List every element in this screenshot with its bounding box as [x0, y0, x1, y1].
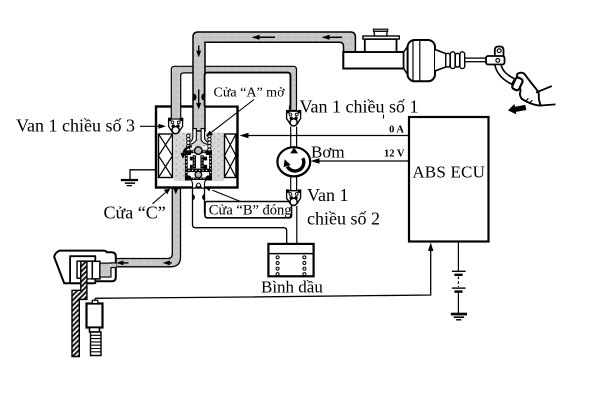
svg-text:chiều số 2: chiều số 2 [307, 209, 380, 229]
pipe below valve to check valve 2 and reservoir [193, 189, 292, 245]
ABS ECU box [409, 117, 489, 242]
svg-text:Cửa “A” mở: Cửa “A” mở [214, 86, 286, 101]
check valve 1 [286, 110, 301, 126]
pedal arm [495, 65, 515, 85]
master cylinder body [343, 49, 403, 68]
label box Cua B dong [205, 202, 292, 219]
wire ground lead from valve body [130, 170, 157, 180]
svg-text:Van 1: Van 1 [307, 185, 349, 205]
svg-text:Bình dầu: Bình dầu [261, 278, 323, 297]
arrow down in vertical pipe upper [196, 46, 201, 58]
arrow left in caliper pipe 2 [163, 261, 173, 266]
check valve 2 [286, 189, 301, 205]
svg-text:ABS ECU: ABS ECU [412, 162, 485, 181]
wire sensor line to ECU with up arrow [95, 243, 433, 299]
clevis [486, 47, 505, 65]
pipe check valve 1 to pump [291, 127, 297, 148]
arrow pedal direction [507, 102, 527, 116]
pipe C from valve to caliper [110, 189, 181, 267]
valve interior stippled chamber [174, 133, 224, 182]
ball valve bottom [195, 171, 202, 178]
ball valve top [195, 147, 203, 155]
flow curved arrow in chamber [181, 146, 193, 159]
svg-text:Bơm: Bơm [311, 143, 345, 162]
wire 12V line from ECU to pump [311, 158, 410, 163]
arrow left in top pipe 2 [322, 35, 343, 40]
pipe thin upper run valve to check valve 1 [171, 66, 296, 121]
svg-text:Cửa “C”: Cửa “C” [104, 203, 166, 223]
spring bead columns [187, 134, 211, 151]
callout arrow to port C [153, 189, 171, 204]
arrow left in top pipe 1 [252, 35, 276, 40]
battery [452, 242, 466, 314]
piston box [185, 151, 212, 180]
pipe pump to check valve 2 [291, 177, 297, 191]
coil left [159, 134, 173, 178]
reservoir master cylinder [363, 29, 399, 52]
pedal pad [511, 77, 523, 91]
svg-text:Van 1 chiều số 1: Van 1 chiều số 1 [300, 97, 419, 117]
callout line to port A [206, 100, 254, 137]
reservoir [268, 244, 313, 276]
check valve 3 [168, 118, 183, 134]
label box Cua A mo [205, 73, 291, 110]
svg-text:12 V: 12 V [384, 149, 405, 160]
callout arrow to port B [205, 186, 241, 201]
caliper body [54, 251, 116, 284]
svg-text:0 A: 0 A [389, 125, 404, 136]
arrow down at port C [173, 187, 178, 195]
port lips below valve [193, 194, 205, 200]
solenoid valve body box [156, 107, 238, 188]
foot shoe [516, 73, 556, 106]
port lips on vertical pipe [193, 94, 204, 101]
brake booster [404, 40, 447, 81]
valve seat port A channels [189, 129, 209, 150]
svg-text:Van 1 chiều số 3: Van 1 chiều số 3 [16, 116, 135, 136]
pipe check valve 2 to reservoir [296, 206, 298, 244]
wire 0A line from ECU to solenoid [240, 133, 410, 138]
pump [277, 147, 310, 176]
pipe wide top run to master cylinder [193, 32, 355, 131]
coil right [225, 134, 237, 178]
ground [121, 179, 138, 186]
wheel sensor [87, 298, 103, 355]
ground battery [451, 313, 467, 321]
port B funnel [191, 180, 205, 189]
arrow down in vertical pipe lower [196, 90, 201, 110]
bellows [446, 52, 465, 69]
arrow left in caliper pipe 1 [116, 261, 129, 266]
brake disc hatched [72, 261, 87, 356]
svg-text:Cửa “B” đóng: Cửa “B” đóng [209, 203, 292, 219]
callout arrow to check valve 3 [140, 124, 166, 129]
push rod [465, 58, 487, 62]
